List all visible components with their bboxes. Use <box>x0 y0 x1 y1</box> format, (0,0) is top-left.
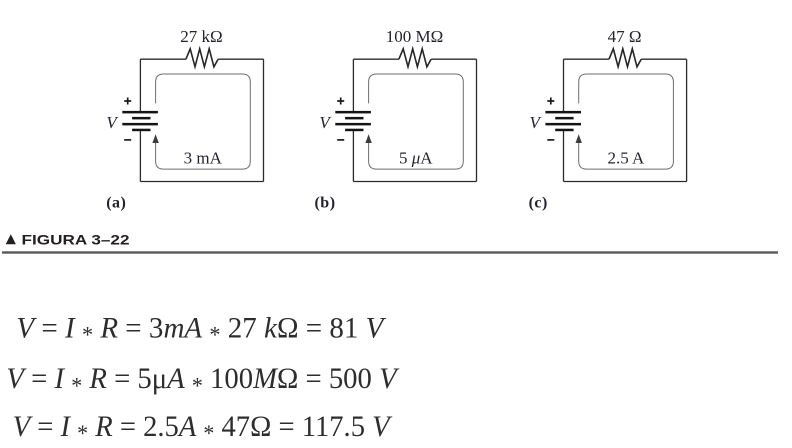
wire: right side (b) <box>476 59 478 181</box>
battery V (a) plate long bottom <box>122 123 158 126</box>
svg-text:V = I *​ R = 2.5A *​ 47Ω = 11: V = I *​ R = 2.5A *​ 47Ω = 117.5 V <box>13 410 393 446</box>
wire: top side right segment (a) <box>218 58 263 60</box>
svg-text:FIGURA 3–22: FIGURA 3–22 <box>22 232 130 248</box>
battery plus sign (b) <box>337 98 344 105</box>
wire: bottom side (c) <box>564 181 687 183</box>
current loop arc (a) <box>156 74 251 169</box>
battery V (b) plate short lower <box>345 129 363 132</box>
wire: top side left segment (a) <box>140 58 186 60</box>
resistor Rb zigzag <box>399 49 431 67</box>
svg-text:3 mA: 3 mA <box>184 148 223 167</box>
battery V (b) plate long bottom <box>335 123 371 126</box>
svg-text:(b): (b) <box>314 195 335 212</box>
wire: right side (a) <box>263 59 265 181</box>
battery V (c) plate long top <box>545 111 581 114</box>
battery minus sign (b) <box>337 139 344 141</box>
battery plus sign (c) <box>547 98 554 105</box>
wire: left side upper segment (b) <box>352 59 354 111</box>
svg-text:V = I *​ R = 3mA *​ 27 kΩ = 8: V = I *​ R = 3mA *​ 27 kΩ = 81 V <box>16 311 387 347</box>
resistor Rc zigzag <box>609 49 641 67</box>
battery V (a) plate long top <box>122 111 158 114</box>
battery minus sign (c) <box>547 139 554 141</box>
resistor Ra zigzag <box>186 49 218 67</box>
battery plus sign (a) <box>124 98 131 105</box>
horizontal rule under caption <box>2 251 778 253</box>
wire: left side upper segment (c) <box>563 59 565 111</box>
wire: top side right segment (b) <box>431 58 476 60</box>
svg-text:V = I *​ R = 5μA *​ 100MΩ = 5: V = I *​ R = 5μA *​ 100MΩ = 500 V <box>6 362 400 398</box>
wire: left side lower segment (b) <box>352 131 354 182</box>
wire: top side left segment (b) <box>353 58 399 60</box>
wire: bottom side (a) <box>140 181 263 183</box>
battery V (c) plate short upper <box>555 117 573 120</box>
wire: left side lower segment (a) <box>139 131 141 182</box>
current direction arrowhead (a) <box>152 134 158 143</box>
battery minus sign (a) <box>124 139 131 141</box>
figure caption triangle marker <box>6 234 16 244</box>
current direction arrowhead (c) <box>576 134 582 143</box>
battery V (a) plate short upper <box>132 117 150 120</box>
svg-text:100 MΩ: 100 MΩ <box>386 27 444 46</box>
svg-text:5 μA: 5 μA <box>399 148 433 167</box>
battery V (c) plate short lower <box>555 129 573 132</box>
battery V (a) plate short lower <box>132 129 150 132</box>
wire: right side (c) <box>686 59 688 181</box>
wire: top side left segment (c) <box>564 58 610 60</box>
current direction arrowhead (b) <box>365 134 371 143</box>
wire: left side upper segment (a) <box>139 59 141 111</box>
current loop arc (c) <box>579 74 674 169</box>
battery V (b) plate short upper <box>345 117 363 120</box>
svg-text:(c): (c) <box>529 195 548 212</box>
svg-text:47 Ω: 47 Ω <box>608 27 642 46</box>
node: top-left corner (b) <box>314 27 476 212</box>
battery V (b) plate long top <box>335 111 371 114</box>
battery V (c) plate long bottom <box>545 123 581 126</box>
svg-text:27 kΩ: 27 kΩ <box>180 27 222 46</box>
node: top-left corner (c) <box>529 27 687 212</box>
wire: top side right segment (c) <box>641 58 686 60</box>
svg-text:(a): (a) <box>106 195 126 212</box>
current loop arc (b) <box>369 74 464 169</box>
node: top-left corner (a) <box>106 27 263 212</box>
wire: bottom side (b) <box>353 181 476 183</box>
wire: left side lower segment (c) <box>563 131 565 182</box>
svg-text:2.5 A: 2.5 A <box>607 148 645 167</box>
